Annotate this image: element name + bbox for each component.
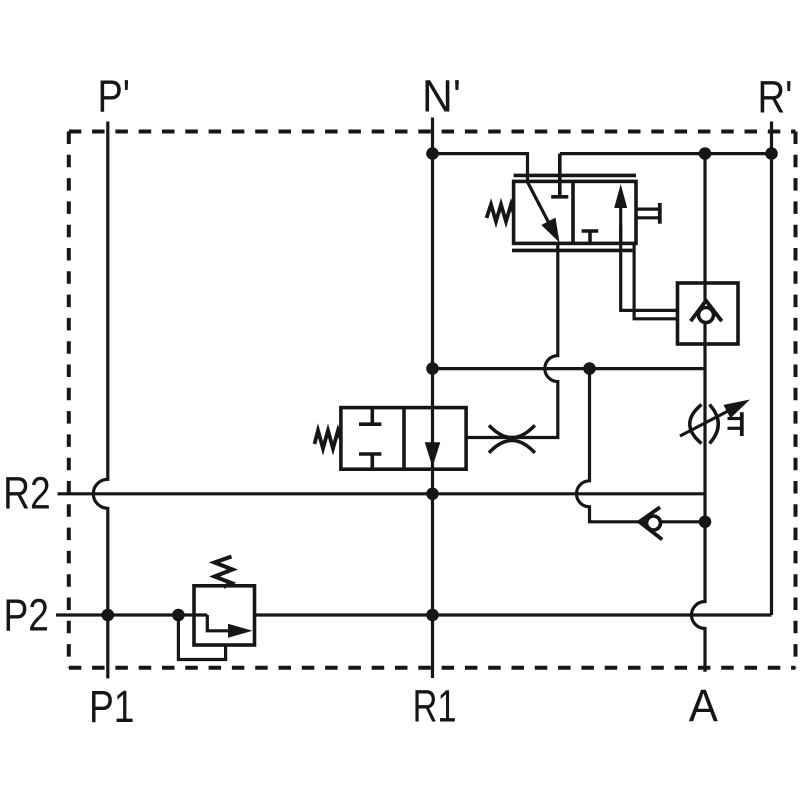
valve V2 spring left xyxy=(315,431,341,449)
wire P' vertical P1 line with hop over R2 xyxy=(93,122,108,679)
ball check valve ball xyxy=(647,516,661,530)
valve V1 left box diagonal arrow xyxy=(528,182,552,227)
check valve CV1 ball xyxy=(699,308,714,323)
wire R2 horizontal rail xyxy=(58,492,706,495)
valve V1 spring left xyxy=(487,205,514,222)
relief valve RV body xyxy=(194,586,255,645)
valve V1 body two position boxes xyxy=(512,175,636,250)
throttle valve arcs on A line xyxy=(690,405,719,444)
relief valve pilot bypass loop xyxy=(178,615,225,660)
svg-text:P': P' xyxy=(98,70,131,121)
throttle valve diagonal arrow xyxy=(680,410,730,436)
valve V1 blocked port T bottom of right box xyxy=(582,231,599,243)
svg-text:P1: P1 xyxy=(89,681,135,732)
wire P2 horizontal rail left part xyxy=(56,613,207,616)
check valve CV1 inner stubs xyxy=(703,283,706,301)
wire A line top segment rail to check valve xyxy=(703,154,706,283)
wire from mid-rail node down with hop over R2 then right to ball check xyxy=(577,369,705,522)
valve V2 down arrow on R1 line xyxy=(425,442,441,467)
valve V1 right pilot actuator rods and bar xyxy=(636,203,660,224)
valve V2 blocked port T bottom left box xyxy=(359,454,381,469)
wire valve V1 bottom port down with hop over mid rail then left through orifice xyxy=(466,243,558,437)
svg-text:R2: R2 xyxy=(3,468,51,519)
wire pilot line lower from V1 body corner to check valve xyxy=(634,243,677,318)
wire N' vertical R1 line xyxy=(431,118,434,679)
wire A line lower segment with hop over P2 rail xyxy=(692,344,706,672)
svg-text:R': R' xyxy=(758,72,793,123)
wire top rail R' segment xyxy=(560,152,772,155)
junction node dots xyxy=(102,147,778,621)
valve V2 body two position boxes xyxy=(341,408,466,470)
svg-text:N': N' xyxy=(422,71,461,122)
relief valve internal L path xyxy=(207,615,230,631)
dashed enclosure border xyxy=(69,132,796,668)
throttle valve adjuster rods and bar xyxy=(728,412,742,436)
valve V2 blocked port T top left box xyxy=(359,408,381,425)
svg-text:R1: R1 xyxy=(413,681,457,732)
svg-text:A: A xyxy=(689,680,718,731)
svg-text:P2: P2 xyxy=(4,590,50,641)
wire P2 horizontal rail right part to R' riser xyxy=(255,613,772,616)
valve V1 bottom rail line xyxy=(512,249,632,253)
wire mid horizontal from R1 line to A line xyxy=(433,367,706,370)
wire top rail N' to valve V1 port xyxy=(433,154,528,182)
valve V1 right box up arrow xyxy=(619,206,622,243)
check valve CV1 box xyxy=(678,283,739,344)
relief valve internal arrow head xyxy=(228,624,253,638)
check valve CV1 seat xyxy=(691,301,722,322)
relief valve spring top xyxy=(215,557,233,588)
ball check valve seat chevron xyxy=(639,507,662,539)
valve V1 blocked port T top xyxy=(551,154,568,197)
valve V1 top rail line xyxy=(514,174,636,178)
wire pilot line upper from V1 arrow shaft to check valve xyxy=(621,225,678,310)
orifice restrictor on horizontal line xyxy=(489,425,535,453)
wire R' riser and P2 rail right end xyxy=(770,122,773,616)
